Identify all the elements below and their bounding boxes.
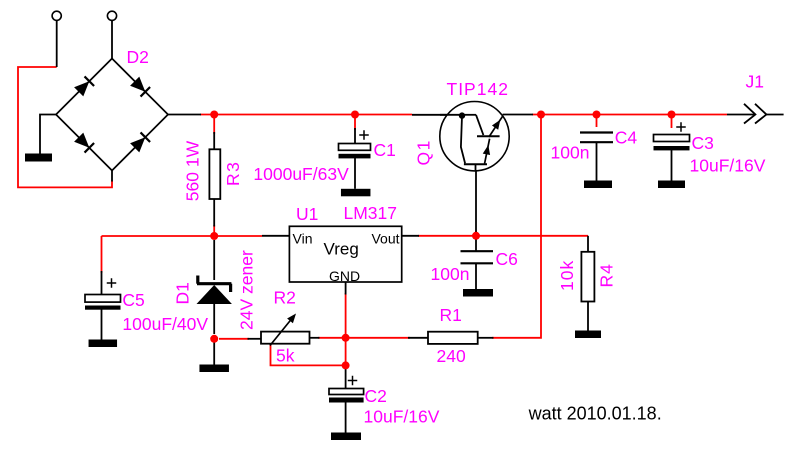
svg-text:D1: D1 [173, 282, 193, 304]
svg-text:TIP142: TIP142 [447, 79, 509, 99]
svg-text:R1: R1 [440, 305, 462, 325]
svg-text:240: 240 [437, 346, 466, 366]
svg-text:GND: GND [329, 268, 360, 284]
svg-text:C3: C3 [692, 133, 714, 153]
svg-text:10k: 10k [557, 260, 577, 291]
svg-text:R4: R4 [597, 263, 617, 287]
svg-text:560 1W: 560 1W [183, 140, 203, 201]
svg-text:LM317: LM317 [344, 203, 398, 223]
svg-text:R3: R3 [223, 161, 243, 186]
svg-text:1000uF/63V: 1000uF/63V [253, 164, 349, 184]
svg-text:U1: U1 [296, 204, 318, 224]
svg-text:J1: J1 [746, 72, 764, 92]
svg-text:100n: 100n [551, 143, 590, 163]
svg-text:5k: 5k [276, 346, 295, 366]
svg-text:R2: R2 [274, 288, 296, 308]
svg-text:Vin: Vin [293, 231, 313, 247]
svg-text:10uF/16V: 10uF/16V [364, 407, 440, 427]
svg-text:Q1: Q1 [414, 139, 434, 165]
svg-text:watt 2010.01.18.: watt 2010.01.18. [528, 404, 662, 424]
svg-text:D2: D2 [127, 47, 149, 67]
svg-text:C6: C6 [496, 249, 518, 269]
svg-text:24V zener: 24V zener [237, 250, 257, 330]
svg-text:C2: C2 [365, 386, 387, 406]
svg-text:C5: C5 [122, 290, 144, 310]
svg-text:100n: 100n [431, 264, 470, 284]
svg-text:C1: C1 [374, 140, 396, 160]
svg-text:100uF/40V: 100uF/40V [122, 314, 208, 334]
svg-text:Vreg: Vreg [324, 240, 359, 259]
svg-text:C4: C4 [615, 128, 638, 148]
svg-text:Vout: Vout [371, 231, 399, 247]
svg-text:10uF/16V: 10uF/16V [690, 156, 766, 176]
